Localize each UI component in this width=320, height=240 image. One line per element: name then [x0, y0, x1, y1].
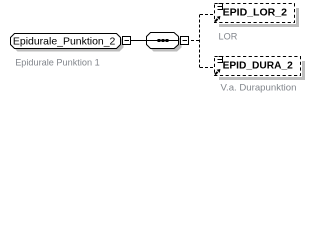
svg-text:Epidurale Punktion 1: Epidurale Punktion 1 [15, 58, 100, 69]
svg-text:V.a. Durapunktion: V.a. Durapunktion [221, 83, 297, 94]
svg-text:Epidurale_Punktion_2: Epidurale_Punktion_2 [13, 35, 116, 47]
svg-text:EPID_LOR_2: EPID_LOR_2 [223, 7, 288, 19]
svg-text:LOR: LOR [219, 32, 238, 43]
svg-text:EPID_DURA_2: EPID_DURA_2 [223, 60, 293, 72]
